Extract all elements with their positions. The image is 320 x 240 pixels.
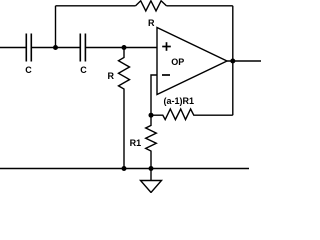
svg-text:(a-1)R1: (a-1)R1 — [164, 96, 195, 106]
op-amp - input symbol — [162, 74, 170, 76]
wire ground rail — [0, 168, 249, 170]
svg-text:R: R — [148, 18, 155, 28]
svg-text:R: R — [108, 71, 115, 81]
capacitor C1 — [26, 34, 31, 62]
svg-text:C: C — [80, 65, 87, 75]
ground — [150, 169, 152, 181]
node A junction dot — [53, 45, 58, 50]
wire node A up to top feedback — [55, 6, 57, 48]
wire C1 to C2 — [31, 47, 80, 49]
svg-text:OP: OP — [171, 57, 184, 67]
capacitor C2 — [80, 34, 85, 62]
wire top feedback left segment — [56, 5, 136, 7]
wire output — [227, 60, 261, 62]
svg-text:C: C — [25, 65, 32, 75]
svg-text:R1: R1 — [130, 138, 142, 148]
wire feedback vertical right — [232, 6, 234, 115]
resistor R (vertical, to ground rail) — [119, 48, 130, 169]
op-amp + input symbol — [162, 42, 171, 51]
wire C2 to op-amp + input — [85, 47, 157, 49]
node R to rail junction dot — [122, 166, 127, 171]
node output junction dot — [230, 59, 235, 64]
op-amp U1 triangle — [157, 28, 227, 95]
wire input — [0, 47, 26, 49]
node B junction dot — [122, 45, 127, 50]
resistor R (top feedback) — [136, 1, 167, 11]
wire top feedback right segment — [166, 5, 232, 7]
resistor (a-1)R1 (horizontal) — [151, 109, 233, 120]
wire - input to node C — [151, 75, 157, 115]
resistor R1 (vertical) — [146, 115, 157, 168]
node C junction dot — [149, 113, 154, 118]
node R1 to rail junction dot — [149, 166, 154, 171]
